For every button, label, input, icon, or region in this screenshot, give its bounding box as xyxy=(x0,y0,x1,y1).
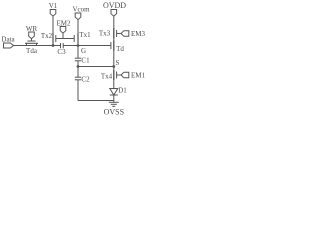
svg-text:Tx2: Tx2 xyxy=(41,32,53,40)
transistor Tx2 xyxy=(53,16,56,46)
port EM3 xyxy=(121,31,129,37)
capacitor C1 xyxy=(75,46,81,67)
diode D1 xyxy=(110,89,118,101)
svg-text:Tx4: Tx4 xyxy=(101,73,113,81)
svg-text:OVDD: OVDD xyxy=(103,1,126,10)
svg-text:C3: C3 xyxy=(57,48,66,56)
node S xyxy=(112,65,115,68)
svg-text:OVSS: OVSS xyxy=(104,108,124,117)
transistor Tda xyxy=(25,38,38,45)
wire gate EM2 row xyxy=(56,38,74,40)
svg-text:WR: WR xyxy=(26,25,38,33)
svg-text:Tda: Tda xyxy=(26,47,38,55)
svg-text:S: S xyxy=(116,59,120,67)
svg-text:C1: C1 xyxy=(81,57,90,65)
svg-text:Tx3: Tx3 xyxy=(99,30,111,38)
svg-text:Data: Data xyxy=(1,36,15,44)
capacitor C3 xyxy=(61,43,111,48)
port WR xyxy=(29,32,35,39)
svg-text:EM2: EM2 xyxy=(57,20,72,28)
svg-text:D1: D1 xyxy=(118,87,127,95)
transistor Td xyxy=(111,41,114,51)
svg-text:C2: C2 xyxy=(81,76,90,84)
port V1 xyxy=(50,10,56,17)
port EM1 xyxy=(121,72,129,78)
svg-text:Td: Td xyxy=(116,45,124,53)
port EM2 xyxy=(60,27,66,39)
svg-text:EM3: EM3 xyxy=(131,30,146,38)
transistor Tx4 xyxy=(114,70,121,80)
wire data row xyxy=(14,45,61,47)
node G xyxy=(77,44,80,47)
svg-text:G: G xyxy=(81,47,86,55)
svg-text:V1: V1 xyxy=(49,2,58,10)
capacitor C2 xyxy=(75,67,114,101)
port Vcom xyxy=(75,13,81,20)
svg-text:EM1: EM1 xyxy=(131,72,146,80)
junction node data/Tx2 xyxy=(52,44,55,47)
transistor Tx1 xyxy=(74,20,78,46)
transistor Tx3 xyxy=(114,28,121,39)
svg-text:Vcom: Vcom xyxy=(72,6,90,14)
wire OVDD rail xyxy=(113,16,115,88)
svg-text:Tx1: Tx1 xyxy=(79,31,91,39)
wire S row xyxy=(78,66,114,68)
port OVDD xyxy=(111,10,117,17)
ground OVSS xyxy=(109,101,119,107)
port Data xyxy=(4,43,14,48)
junction node C1/C2 xyxy=(77,65,80,68)
